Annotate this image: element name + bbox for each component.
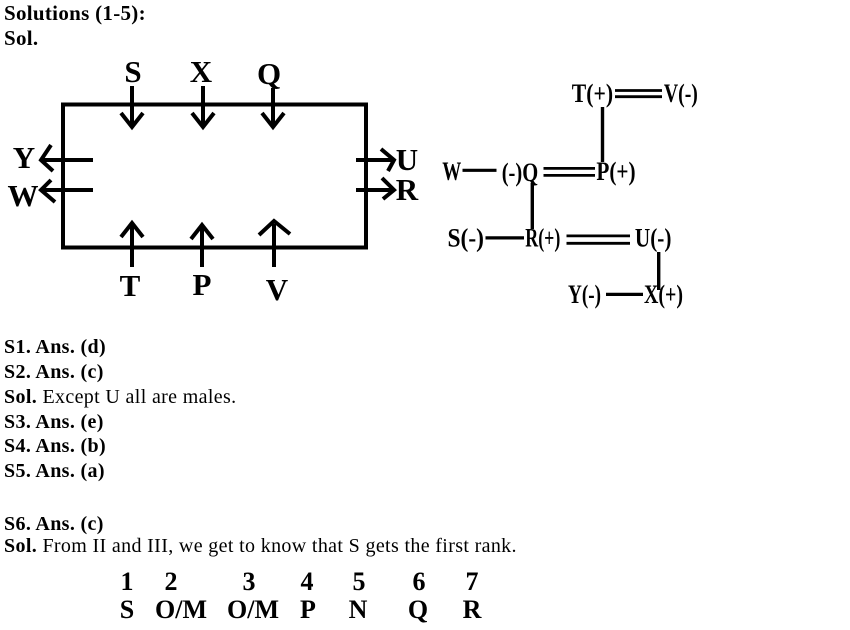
wire U to X — [657, 252, 660, 290]
box rectangle — [63, 105, 366, 248]
svg-text:T(+): T(+) — [572, 79, 613, 108]
heading Solutions (1-5): — [4, 1, 146, 51]
rank table letters row — [120, 597, 134, 623]
answers block S6 — [4, 514, 517, 557]
svg-text:X(+): X(+) — [644, 280, 683, 309]
svg-text:X: X — [190, 54, 213, 89]
wire T to P — [601, 107, 604, 162]
arrow U (right out of box) — [356, 149, 394, 171]
arrow V (up into box) — [259, 221, 290, 267]
wire Q to R — [531, 183, 534, 229]
svg-text:W: W — [8, 178, 39, 213]
answers block S1-S5 — [4, 335, 237, 484]
wire W to Q — [463, 169, 497, 172]
svg-text:P: P — [193, 267, 212, 302]
arrow T (up into box) — [121, 223, 143, 267]
svg-text:V(-): V(-) — [664, 79, 698, 108]
rank table numbers row — [121, 569, 134, 595]
couple line T=V — [615, 91, 662, 97]
arrow X (down into box) — [192, 86, 214, 127]
svg-text:W: W — [442, 157, 461, 186]
svg-text:P(+): P(+) — [596, 157, 635, 186]
arrow Y (left out of box) — [41, 145, 93, 171]
svg-text:Q: Q — [257, 56, 281, 91]
svg-text:S(-): S(-) — [448, 224, 485, 253]
couple line R=U — [567, 236, 631, 243]
arrow Q (down into box) — [262, 88, 284, 127]
svg-text:T: T — [120, 268, 141, 303]
arrow W (left out of box) — [41, 180, 93, 202]
arrow R (right out of box) — [356, 178, 394, 199]
svg-text:V: V — [266, 272, 289, 307]
svg-text:S: S — [124, 54, 141, 89]
svg-text:Y(-): Y(-) — [568, 280, 601, 309]
svg-text:U(-): U(-) — [635, 224, 672, 253]
svg-text:Y: Y — [13, 140, 35, 175]
svg-text:R: R — [396, 172, 419, 207]
svg-text:R(+): R(+) — [525, 224, 560, 253]
wire Y to X — [606, 293, 643, 296]
wire S to R — [486, 236, 525, 239]
arrow P (up into box) — [191, 225, 213, 267]
couple line Q=P — [544, 168, 596, 175]
svg-text:(-)Q: (-)Q — [502, 158, 539, 187]
arrow S (down into box) — [121, 86, 143, 127]
